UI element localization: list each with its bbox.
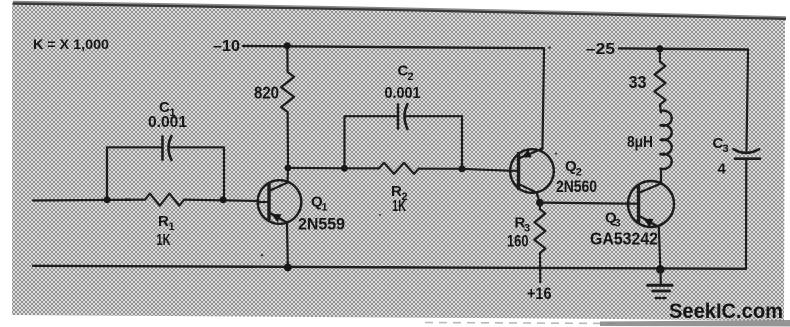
speck dash on wire xyxy=(126,198,131,201)
svg-text:33: 33 xyxy=(629,72,647,92)
node dot bottom Q1 xyxy=(284,263,292,271)
resistor R2 xyxy=(345,167,380,169)
ground xyxy=(659,270,661,285)
wire R1 to Q1 base xyxy=(184,200,258,201)
svg-text:1K: 1K xyxy=(157,232,172,249)
node dot Q2 collector xyxy=(536,199,544,207)
transistor Q1 xyxy=(258,180,302,224)
power rail -25 xyxy=(619,48,748,49)
svg-text:R: R xyxy=(158,213,169,230)
svg-text:–25: –25 xyxy=(586,41,615,58)
capacitor C2 branch xyxy=(345,116,398,168)
svg-text:8μH: 8μH xyxy=(627,134,653,151)
svg-text:3: 3 xyxy=(723,143,729,155)
resistor 33 branch xyxy=(659,49,661,62)
node dot Q1 collector xyxy=(285,164,292,171)
node dot C2/R2 left xyxy=(341,165,348,172)
capacitor C3 xyxy=(734,149,760,153)
svg-text:820: 820 xyxy=(254,83,279,103)
inductor 8uH xyxy=(661,111,672,169)
bottom rail xyxy=(33,266,746,269)
svg-text:0.001: 0.001 xyxy=(385,85,421,102)
junction dot on -10 rail xyxy=(284,42,291,49)
svg-text:2N559: 2N559 xyxy=(298,215,345,234)
transistor Q3 xyxy=(628,181,674,227)
capacitor C1 branch xyxy=(107,147,162,200)
svg-text:SeekIC.com: SeekIC.com xyxy=(669,299,783,323)
top border line of scan xyxy=(13,3,786,18)
junction dot on -25 rail xyxy=(656,45,663,52)
svg-text:K = X 1,000: K = X 1,000 xyxy=(33,36,109,52)
wire Q1 collector up xyxy=(286,168,289,182)
wire Q1 emitter down xyxy=(286,223,289,268)
svg-text:0.001: 0.001 xyxy=(148,114,187,131)
node dot C2/R2 right xyxy=(459,165,466,172)
wire Q3 emitter down xyxy=(659,227,661,269)
resistor R1 xyxy=(145,194,184,206)
node dot left of R1 xyxy=(104,196,111,203)
transistor Q2 xyxy=(510,149,554,193)
svg-text:4: 4 xyxy=(718,161,727,178)
power rail -10 xyxy=(243,46,544,48)
svg-text:GA53242: GA53242 xyxy=(590,229,658,249)
svg-text:160: 160 xyxy=(507,232,529,251)
wire Q2 collector to node xyxy=(537,193,540,203)
svg-text:1: 1 xyxy=(322,202,328,214)
wire to Q2 base xyxy=(462,169,511,171)
speck dot 3 xyxy=(548,46,551,49)
svg-text:2N560: 2N560 xyxy=(556,177,597,196)
resistor 820 branch xyxy=(286,46,289,73)
wire node to Q3 base xyxy=(540,203,629,204)
wire C3 down to bottom rail xyxy=(745,159,747,269)
speck dot 4 xyxy=(555,152,557,154)
wire Q2 emitter up to -10 corner xyxy=(541,148,543,150)
speck dot 1 xyxy=(261,254,264,257)
wire input line left xyxy=(33,199,145,202)
wire right rail down to C3 xyxy=(747,50,749,151)
svg-text:1K: 1K xyxy=(392,198,407,215)
wire Q3 collector up to coil xyxy=(660,169,662,184)
svg-text:+16: +16 xyxy=(527,284,552,303)
speck dot 2 xyxy=(379,214,381,216)
node dot right of R1 xyxy=(220,196,227,203)
torn bottom edge line xyxy=(425,323,620,324)
svg-text:2: 2 xyxy=(408,71,414,83)
svg-text:–10: –10 xyxy=(213,38,240,55)
wire node to C2/R2 xyxy=(288,167,345,170)
wire -10 rail corner down to Q2 xyxy=(543,48,545,149)
resistor R3 branch xyxy=(539,203,541,209)
node dot bottom Q3 / ground xyxy=(656,265,665,274)
